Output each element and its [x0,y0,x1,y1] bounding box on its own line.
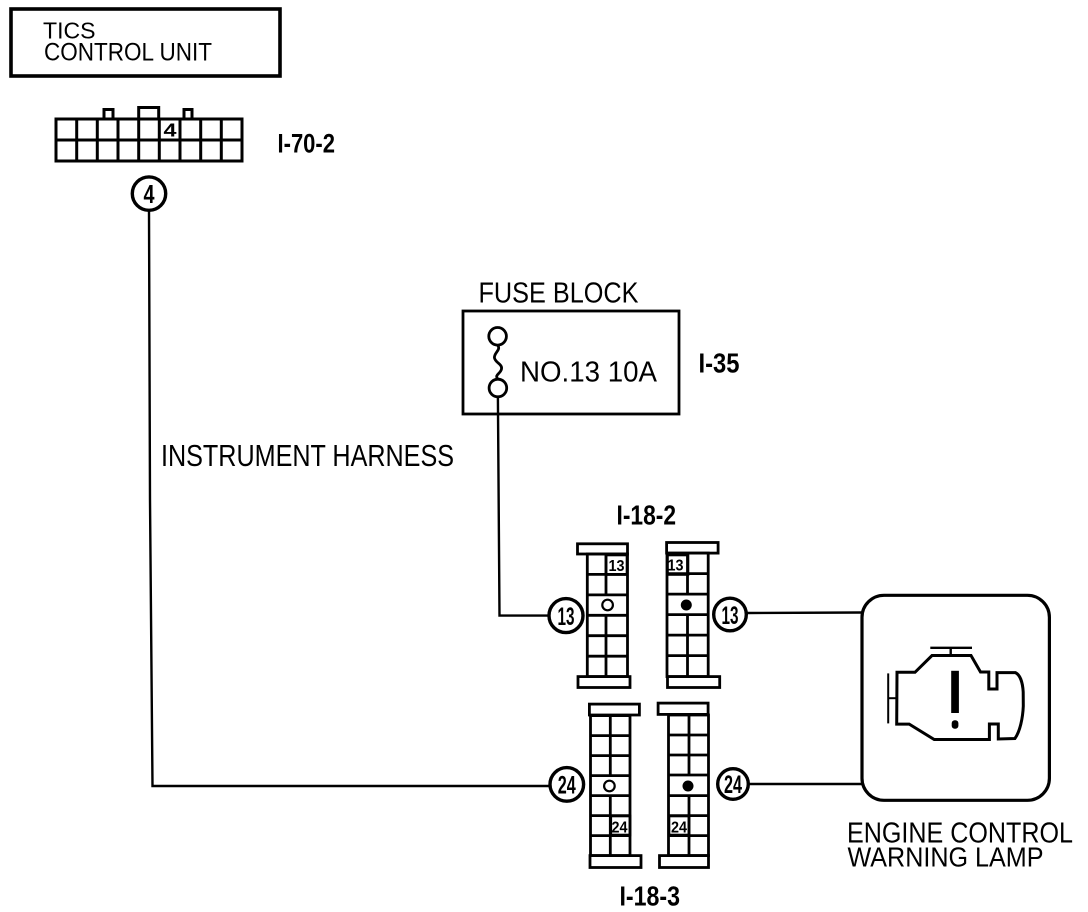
engine icon outline [897,656,1024,740]
svg-text:NO.13 10A: NO.13 10A [520,357,658,389]
pin circle 24 left [550,768,584,802]
connector strip I-18-2 left [578,544,631,688]
svg-text:24: 24 [671,820,687,837]
svg-text:13: 13 [722,602,739,630]
svg-text:I-18-2: I-18-2 [617,500,677,531]
svg-text:I-18-3: I-18-3 [620,881,681,912]
svg-text:INSTRUMENT HARNESS: INSTRUMENT HARNESS [161,438,454,473]
exclamation mark dot [952,720,959,728]
connector strip I-18-3 right [658,703,708,867]
svg-text:FUSE BLOCK: FUSE BLOCK [479,278,640,310]
pin 13 cell box [668,555,689,575]
hollow terminal marker [604,781,615,792]
pin circle 24 right [718,769,749,800]
connector strip I-18-2 right [667,543,720,688]
svg-text:WARNING LAMP: WARNING LAMP [848,842,1044,873]
svg-text:24: 24 [558,772,576,800]
svg-text:13: 13 [668,558,684,575]
pin circle 4 [132,177,165,210]
svg-text:24: 24 [612,820,628,837]
pin 24 cell box [669,816,689,835]
connector tab small right [184,110,192,120]
wire pin 24 to lamp [749,783,863,785]
svg-text:13: 13 [558,603,575,631]
TICS control unit box [11,9,280,76]
engine icon top stem [930,648,972,656]
exclamation mark bar [951,671,959,713]
svg-text:CONTROL UNIT: CONTROL UNIT [44,39,212,67]
pin circle 13 left [549,599,583,633]
engine control warning lamp box [862,595,1049,800]
svg-text:4: 4 [144,179,155,209]
svg-text:13: 13 [609,558,625,575]
TICS control unit label [43,18,212,67]
engine icon left bracket [888,673,897,723]
pin circle 13 right [714,598,747,631]
svg-text:4: 4 [164,121,177,141]
svg-text:I-35: I-35 [699,348,740,379]
wire from pin 4 to pin 24 [149,211,551,787]
hollow terminal marker [602,600,613,611]
wire pin 13 to lamp [747,611,863,614]
connector tab large [139,108,159,120]
filled terminal marker [683,781,694,792]
fuse block box [463,311,679,414]
svg-text:I-70-2: I-70-2 [278,129,336,159]
connector tab small left [104,110,113,120]
filled terminal marker [681,600,692,611]
connector strip I-18-3 left [589,704,641,867]
connector I-70-2 [56,108,242,162]
pin 24 cell box [611,816,630,835]
svg-text:24: 24 [724,771,742,799]
wire from fuse to pin 13 [498,397,549,616]
fuse F13 symbol [489,328,507,397]
pin 13 cell box [606,555,627,575]
